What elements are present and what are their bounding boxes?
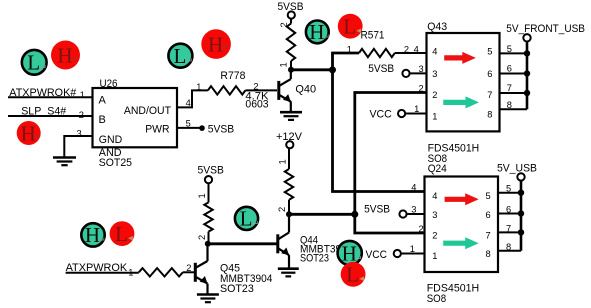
wire ATXPWROK# input [8,96,92,98]
svg-text:5VSB: 5VSB [364,204,390,216]
svg-text:2: 2 [419,224,424,234]
wire U26 pin5 PWR to 5VSB [177,118,200,128]
svg-text:L: L [27,51,40,75]
svg-text:1: 1 [196,82,201,92]
svg-text:2: 2 [197,235,207,240]
svg-text:5V_FRONT_USB: 5V_FRONT_USB [506,23,585,35]
svg-text:8: 8 [486,249,491,259]
wire SLP_S4# input [8,115,92,117]
svg-text:4: 4 [414,44,419,54]
ground Q44 [278,269,299,277]
svg-text:2: 2 [279,22,289,27]
node Q45 collector junction [205,241,211,247]
svg-text:1: 1 [80,90,85,100]
wire U26 pin3 to ground [64,128,92,156]
svg-text:1: 1 [347,44,352,54]
svg-text:↵: ↵ [71,54,79,64]
svg-text:◄: ◄ [355,26,363,35]
svg-text:5: 5 [186,118,191,128]
wire Q24 output bus [498,181,521,252]
svg-text:5VSB: 5VSB [208,124,235,136]
svg-text:8: 8 [506,242,511,252]
op-amp U26 AND gate SOT25 [93,78,178,169]
svg-text:4: 4 [432,47,437,57]
node junction Q43 pin7 bus [524,90,530,96]
svg-text:5V_USB: 5V_USB [497,163,537,175]
svg-text:SO8: SO8 [427,293,446,305]
node 5V_FRONT_USB terminal [506,23,585,41]
red arrow inside Q24 [445,193,479,205]
wire Q43 output bus [500,42,528,111]
svg-text:GND: GND [99,134,122,146]
svg-text:VCC: VCC [366,249,388,261]
node junction Q43 pin6 bus [524,70,530,76]
node ATXPWROK [66,262,134,277]
transistor Q24 FDS4501H [411,163,498,305]
annotation circle L teal near Q45 [235,207,259,231]
node ATXPWROK# [9,87,85,100]
green arrow inside Q24 [443,237,479,249]
svg-text:R778: R778 [220,70,245,82]
svg-text:B: B [99,114,106,126]
svg-text:Q24: Q24 [428,163,447,175]
annotation circle H red top-left [51,41,80,70]
annotation circle L red bottom-left [110,221,135,246]
svg-text:A: A [99,95,107,107]
svg-text:↵: ↵ [222,43,230,53]
resistor R778 4.7K 0603 [208,70,269,111]
svg-text:3: 3 [432,210,437,220]
node 5V_USB terminal [497,163,537,181]
svg-text:4: 4 [432,191,437,201]
svg-text:H: H [85,223,100,247]
svg-text:1: 1 [197,193,207,198]
transistor Q44 MMBT3904 SOT23 [278,214,353,268]
ground U26 [53,158,76,166]
annotation circle H teal top-center [306,20,330,44]
node VCC at Q43 pin1 [370,104,427,120]
svg-text:5: 5 [487,47,492,57]
wire Q44 node to 5VSB junction [289,213,355,216]
annotation circle L red top-center [338,14,363,39]
resistor R571 [347,29,409,57]
svg-text:SOT25: SOT25 [99,157,132,169]
svg-text:5VSB: 5VSB [198,165,224,177]
node 5VSB top terminal [278,1,304,18]
svg-text:1: 1 [432,251,437,261]
svg-text:4: 4 [186,98,191,108]
node +12V terminal [276,131,303,148]
svg-text:1: 1 [279,62,289,67]
svg-text:↵: ↵ [34,132,42,142]
svg-text:↵: ↵ [40,63,47,72]
annotation circle L teal top-left [22,50,47,75]
svg-text:8: 8 [487,109,492,119]
node junction at x332 [329,66,336,73]
svg-text:1: 1 [278,159,288,164]
annotation circle L teal mid-top [168,44,193,68]
svg-text:5: 5 [486,191,491,201]
node junction Q43 pin5 bus [524,50,530,56]
node Q44 collector junction [286,211,292,217]
red arrow inside Q43 [444,52,476,64]
node junction Q24 pin5 bus [518,190,524,196]
svg-text:L: L [240,207,253,231]
annotation circle H red mid-top [201,29,231,59]
transistor Q40 [279,70,316,112]
node 5VSB at Q43 pin3 [368,63,426,77]
svg-text:SOT23: SOT23 [220,283,254,295]
svg-text:7: 7 [486,231,491,241]
node 5VSB terminal above Q45 [198,165,224,184]
wire R571 to Q43 pin4 [395,44,427,54]
svg-text:7: 7 [487,90,492,100]
svg-text:3: 3 [77,128,82,138]
svg-text:1: 1 [128,267,133,277]
node Q40 collector junction [288,67,294,73]
ground Q40 [280,112,302,120]
svg-text:U26: U26 [100,78,118,90]
annotation circle L red near VCC [341,262,366,287]
resistor above Q40 collector [279,19,296,70]
node junction Q24 pin7 bus [518,229,524,235]
svg-text:H: H [309,20,324,44]
wire junction down to Q24 pin4 [333,70,425,192]
svg-text:3: 3 [432,69,437,79]
svg-text:1: 1 [414,104,419,114]
svg-text:Q40: Q40 [295,84,316,96]
svg-text:7: 7 [507,83,512,93]
svg-text:L: L [173,44,186,68]
resistor below +12V [277,148,293,214]
svg-text:3: 3 [411,205,416,215]
svg-text:6: 6 [506,205,511,215]
svg-text:0603: 0603 [245,98,268,110]
svg-text:6: 6 [507,63,512,73]
svg-text:ATXPWROK: ATXPWROK [66,262,128,274]
svg-text:R571: R571 [361,29,385,41]
ground Q45 [197,295,219,303]
wire R778 to Q40 base [245,89,277,91]
svg-text:2: 2 [186,263,191,273]
svg-text:3: 3 [419,64,424,74]
wire ATXPWROK input [66,272,139,274]
svg-text:2: 2 [432,90,437,100]
transistor Q43 FDS4501H [427,21,500,165]
svg-text:6: 6 [486,210,491,220]
annotation circle H teal near VCC [338,241,363,265]
svg-text:ATXPWROK#: ATXPWROK# [9,87,77,99]
svg-text:5: 5 [506,184,511,194]
svg-text:↵: ↵ [186,57,193,66]
wire junction up to R571 [333,53,360,70]
svg-text:◄: ◄ [127,233,135,242]
svg-text:PWR: PWR [145,123,169,135]
svg-text:SOT23: SOT23 [300,253,329,265]
resistor above Q45 collector [197,183,213,244]
svg-text:↵: ↵ [253,219,260,228]
svg-text:4: 4 [411,183,416,193]
resistor at Q45 base [139,263,194,277]
svg-text:8: 8 [507,100,512,110]
svg-text:1: 1 [410,244,415,254]
svg-text:1: 1 [432,111,437,121]
wire Q45 collector to Q44 base [208,242,277,245]
svg-text:2: 2 [79,110,84,120]
node SLP_S4# [21,106,84,121]
node 5VSB at PWR [199,124,234,136]
svg-text:↵: ↵ [323,33,330,42]
green arrow inside Q43 [443,96,479,108]
svg-text:AND/OUT: AND/OUT [124,105,171,117]
svg-text:2: 2 [277,207,287,212]
svg-text:5VSB: 5VSB [368,63,394,75]
annotation circle H teal bottom-left [81,223,105,247]
svg-text:↵: ↵ [99,236,106,245]
node junction Q24 pin6 bus [518,210,524,216]
transistor Q45 MMBT3904 SOT23 [195,244,272,295]
wire Q43 pin2 net to Q24 pin2 [355,84,427,234]
svg-text:2: 2 [432,231,437,241]
svg-text:◄: ◄ [358,274,366,283]
svg-text:7: 7 [506,224,511,234]
svg-text:VCC: VCC [370,108,392,120]
annotation circle H red left [17,121,42,145]
svg-text:5: 5 [507,44,512,54]
node VCC at Q24 pin1 [366,244,425,261]
node 5VSB at Q24 pin3 [364,204,424,218]
svg-text:↵: ↵ [356,254,363,263]
svg-text:6: 6 [487,69,492,79]
wire U26 pin4 output [177,82,208,108]
svg-text:2: 2 [419,84,424,94]
svg-text:Q43: Q43 [427,21,447,33]
svg-text:SLP_S4#: SLP_S4# [21,106,67,118]
wire Q40 collector to bus junction [291,68,333,71]
node junction at x354 [351,211,358,218]
